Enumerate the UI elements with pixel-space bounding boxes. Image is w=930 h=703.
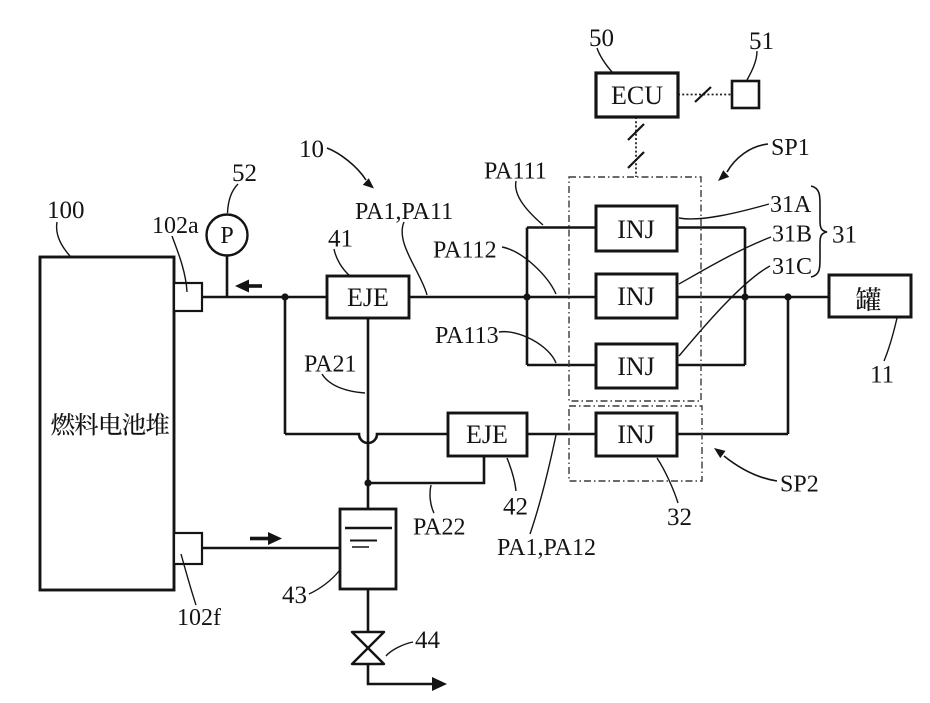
svg-text:102a: 102a bbox=[152, 213, 199, 239]
svg-text:SP1: SP1 bbox=[771, 135, 810, 161]
slash on ECU-51 signal line bbox=[695, 87, 711, 102]
svg-text:10: 10 bbox=[299, 136, 324, 163]
svg-text:100: 100 bbox=[47, 197, 85, 224]
injector INJ 32 bbox=[596, 413, 677, 456]
flow arrow (right, above 102f line) bbox=[250, 532, 282, 545]
svg-text:INJ: INJ bbox=[617, 352, 655, 381]
hydrogen tank 罐 11 bbox=[829, 275, 911, 317]
svg-text:11: 11 bbox=[870, 362, 894, 389]
pointer arrow from label SP2 bbox=[724, 456, 777, 481]
leader 102a bbox=[172, 236, 187, 292]
gas-liquid separator 43 bbox=[340, 509, 396, 589]
flow arrow (left, above main line near gauge) bbox=[235, 280, 262, 293]
svg-text:31B: 31B bbox=[772, 222, 812, 248]
wire: drop from main line to INJ4 output line bbox=[787, 297, 790, 434]
svg-text:52: 52 bbox=[232, 160, 257, 187]
injector INJ 31C bbox=[596, 344, 677, 388]
wire: EJE41 drain down to gas-liquid separator 43 (PA21/PA22) bbox=[367, 318, 370, 509]
svg-text:43: 43 bbox=[282, 582, 307, 609]
leader PA113 bbox=[499, 332, 556, 363]
svg-text:31: 31 bbox=[832, 222, 857, 249]
pressure gauge P (52) bbox=[207, 215, 248, 256]
wire: branch down from main line toward EJE42 (PA21 start) bbox=[284, 297, 287, 434]
svg-text:44: 44 bbox=[415, 627, 441, 654]
drain valve 44 bbox=[352, 632, 384, 664]
leader 51 bbox=[747, 51, 757, 80]
anode inlet port 102f bbox=[174, 533, 202, 564]
svg-text:51: 51 bbox=[749, 28, 774, 55]
wire: anode inlet 102f to separator 43 bbox=[202, 547, 340, 550]
svg-text:50: 50 bbox=[589, 25, 614, 52]
leader 31B bbox=[679, 237, 771, 284]
leader 50 bbox=[597, 48, 612, 72]
wire: left bus vertical (PA111/PA113 branch) bbox=[526, 228, 529, 366]
wire: EJE42 suction return line bbox=[368, 456, 484, 483]
dashed box SP1 (injector unit 31) bbox=[569, 177, 701, 401]
node junction (368,483) bbox=[364, 479, 371, 486]
svg-text:P: P bbox=[220, 223, 233, 249]
leader 31C bbox=[679, 266, 770, 356]
text 罐 (tank) bbox=[856, 287, 880, 311]
wire: INJ3 to right bus bbox=[677, 364, 745, 367]
node junction (527,297) bbox=[523, 293, 530, 300]
wire: INJ2 to tank 11 bbox=[677, 296, 829, 299]
leader 44 bbox=[386, 642, 413, 656]
svg-text:INJ: INJ bbox=[617, 215, 655, 244]
svg-text:SP2: SP2 bbox=[780, 472, 819, 498]
leader 41 bbox=[334, 249, 350, 276]
leader 11 bbox=[884, 318, 897, 361]
slash upper on ECU-SP1 line bbox=[628, 124, 644, 140]
wire: left bus to INJ3 (PA113) bbox=[527, 364, 596, 367]
node junction (285,297) bbox=[281, 293, 288, 300]
svg-text:32: 32 bbox=[667, 504, 692, 531]
svg-text:EJE: EJE bbox=[347, 283, 389, 312]
wire: INJ4 to right drop bbox=[677, 433, 788, 436]
wire: valve 44 to drain outlet bbox=[368, 664, 434, 684]
drain outlet arrow bbox=[432, 677, 447, 691]
leader 32 bbox=[657, 458, 678, 503]
svg-text:PA113: PA113 bbox=[435, 323, 499, 349]
leader 102f bbox=[181, 554, 196, 605]
wire: separator 43 down to valve 44 bbox=[367, 589, 370, 632]
leader 100 bbox=[57, 222, 70, 256]
injector INJ 31A bbox=[596, 206, 677, 251]
leader PA1,PA11 bbox=[402, 222, 427, 295]
wire: pressure gauge stem bbox=[226, 255, 229, 297]
liquid level lines in separator 43 bbox=[345, 528, 392, 547]
sensor box 51 bbox=[732, 81, 759, 108]
ejector EJE 42 bbox=[448, 413, 527, 456]
injector INJ 31B bbox=[596, 274, 677, 318]
wire: EJE41 to INJ2 (PA1,PA11 / PA112 line) bbox=[409, 296, 596, 299]
slash lower on ECU-SP1 line bbox=[628, 152, 644, 168]
anode outlet port 102a bbox=[174, 283, 202, 311]
fuel cell stack 100 (燃料电池堆) bbox=[40, 257, 174, 590]
svg-text:31A: 31A bbox=[770, 192, 812, 218]
svg-text:PA22: PA22 bbox=[413, 515, 465, 541]
svg-text:42: 42 bbox=[503, 494, 528, 521]
signal line ECU down to SP1 (dotted) bbox=[635, 117, 637, 177]
leader PA1,PA12 bbox=[530, 435, 556, 534]
pointer arrow from label 10 bbox=[327, 148, 366, 180]
controller ECU 50 bbox=[596, 73, 678, 117]
leader PA21 bbox=[322, 374, 365, 393]
leader PA112 bbox=[502, 247, 556, 294]
wire: right bus vertical bbox=[744, 228, 747, 366]
wire: EJE42 to INJ4 (PA1,PA12) bbox=[527, 433, 596, 436]
leader PA111 bbox=[516, 181, 543, 225]
wire: left bus to INJ1 (PA111) bbox=[527, 226, 596, 229]
wire: INJ1 to right bus bbox=[677, 226, 745, 229]
node junction (745,297) bbox=[741, 293, 748, 300]
leader 52 bbox=[228, 184, 239, 213]
wire: lower branch to EJE42 with under-hop over EJE41 drain bbox=[285, 434, 448, 443]
signal line ECU to 51 (dotted) bbox=[678, 94, 732, 96]
ejector EJE 41 bbox=[327, 276, 409, 318]
svg-text:PA21: PA21 bbox=[304, 352, 356, 378]
node junction (788,297) bbox=[784, 293, 791, 300]
svg-text:PA112: PA112 bbox=[433, 238, 497, 264]
svg-text:102f: 102f bbox=[177, 605, 221, 631]
svg-text:INJ: INJ bbox=[617, 420, 655, 449]
svg-text:PA1,PA12: PA1,PA12 bbox=[497, 535, 596, 561]
svg-text:31C: 31C bbox=[772, 254, 812, 280]
brace grouping 31A-31C as 31 bbox=[811, 186, 827, 277]
leader PA22 bbox=[430, 485, 434, 513]
svg-text:INJ: INJ bbox=[617, 282, 655, 311]
dashed box SP2 (injector unit 32) bbox=[569, 406, 702, 481]
leader 31A bbox=[679, 204, 769, 219]
pointer arrow from label SP1 bbox=[727, 144, 768, 172]
svg-text:ECU: ECU bbox=[611, 81, 663, 110]
svg-text:EJE: EJE bbox=[466, 420, 508, 449]
svg-text:PA111: PA111 bbox=[484, 159, 547, 185]
leader 43 bbox=[309, 571, 339, 594]
svg-text:41: 41 bbox=[328, 226, 353, 253]
leader 42 bbox=[507, 458, 516, 491]
wire: anode outlet 102a to EJE41 (main line left) bbox=[202, 296, 327, 299]
text 燃料电池堆 (fuel cell stack) bbox=[51, 413, 74, 436]
svg-text:PA1,PA11: PA1,PA11 bbox=[355, 199, 453, 225]
